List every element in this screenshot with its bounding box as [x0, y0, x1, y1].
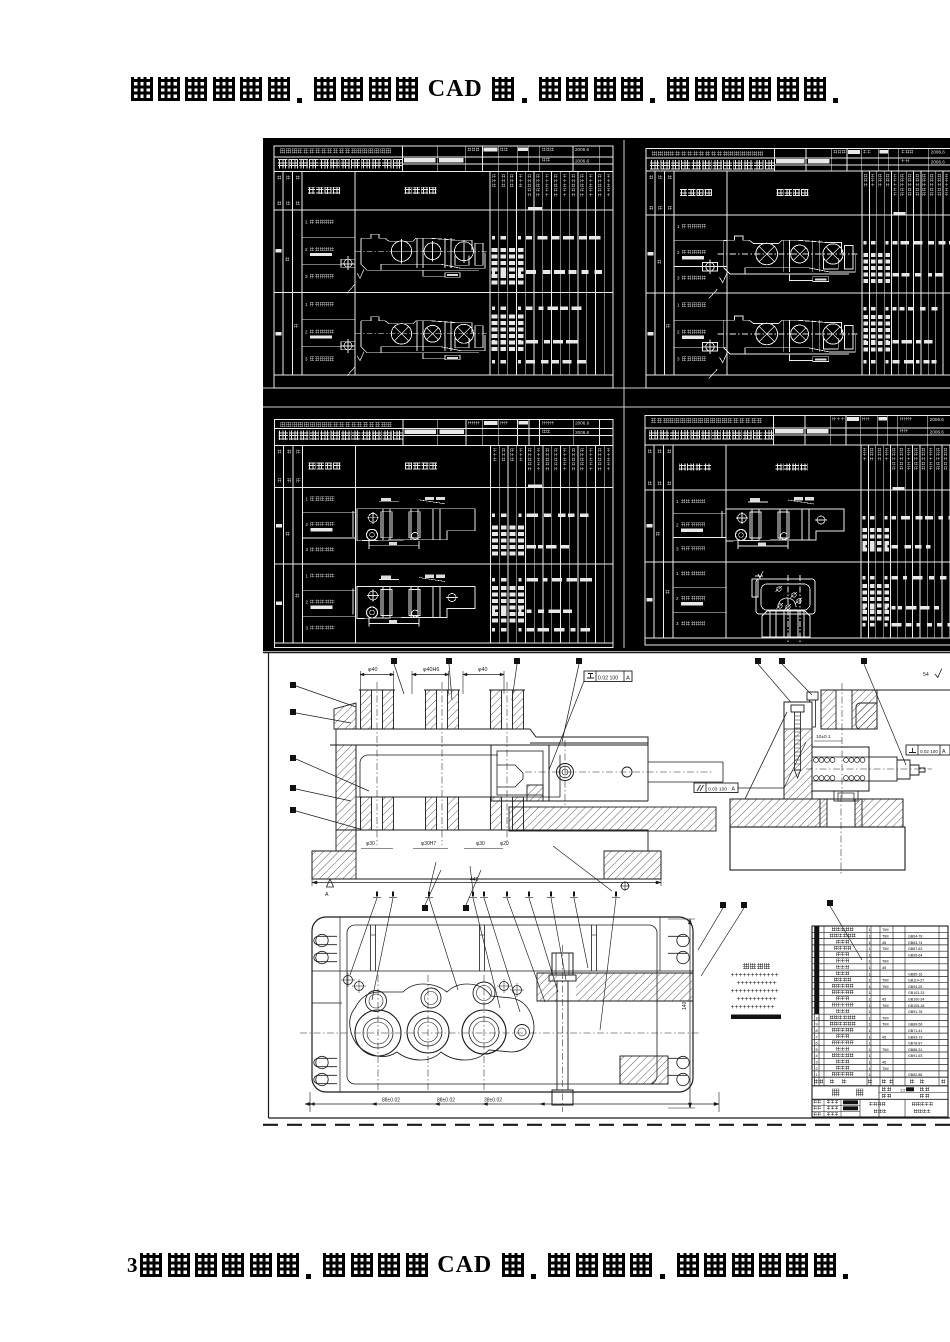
svg-text:TIM: TIM: [882, 947, 889, 951]
svg-text:140: 140: [682, 1001, 688, 1010]
svg-text:TIM: TIM: [882, 960, 889, 964]
front view: balloons top row: [391, 658, 397, 664]
BOM parts list table: [812, 926, 948, 1117]
svg-text:GB64-78: GB64-78: [908, 935, 922, 939]
svg-text:GB82-86: GB82-86: [908, 1073, 922, 1077]
card BL title block: [275, 428, 614, 430]
card BR 工序内容 entries: [673, 513, 726, 515]
svg-text:GB91-63: GB91-63: [908, 1054, 922, 1058]
card TR column headers: [654, 171, 656, 375]
card TL title 机械加工工艺过程综合卡片: [278, 159, 287, 168]
card BL 工序内容 entries: [303, 512, 356, 514]
hatched strip lower right: [620, 1056, 668, 1084]
card BL header filled fields: [405, 430, 437, 434]
side view top block: [821, 690, 836, 729]
sheet edge dashed line: [263, 1124, 950, 1126]
svg-text:4: 4: [816, 1054, 818, 1058]
card TR header grid: [805, 149, 807, 172]
svg-text:7: 7: [816, 1035, 818, 1039]
svg-text:TIM: TIM: [882, 1023, 889, 1027]
card BR title 机械加工工艺过程综合卡片: [649, 430, 658, 439]
svg-text:TIM: TIM: [882, 1016, 889, 1020]
card BL 工序内容: [309, 463, 316, 470]
process card BR outer border: [645, 416, 950, 645]
tech req underline bar: [731, 1015, 781, 1020]
top bolt: [807, 692, 818, 700]
svg-text:φ40: φ40: [368, 667, 378, 673]
svg-text:3: 3: [816, 1061, 818, 1065]
drawing sheet frame top border: [263, 651, 950, 653]
card TR header filled fields: [776, 159, 804, 163]
svg-text:45: 45: [882, 966, 886, 970]
centerlines front view: [376, 682, 378, 845]
svg-text:9: 9: [816, 1023, 818, 1027]
card BR parameter entries: [863, 516, 866, 520]
svg-text:TIM: TIM: [882, 985, 889, 989]
base hatched band right: [509, 807, 716, 831]
svg-text:GB103-33: GB103-33: [908, 991, 924, 995]
card TL 工序简图 drawing row1: [341, 234, 487, 293]
top guide bushings: [361, 690, 372, 729]
card BL tool columns entries: [492, 526, 498, 530]
spindle body: [812, 747, 869, 791]
small locator holes: [344, 976, 353, 985]
svg-text:A: A: [942, 749, 946, 755]
svg-text:2006.6: 2006.6: [930, 429, 944, 434]
BOM standard-part black bar: [815, 926, 820, 1014]
card BL header grid: [437, 420, 439, 446]
svg-text:TIM: TIM: [882, 979, 889, 983]
svg-text:φ30: φ30: [366, 841, 375, 847]
svg-text:GB78-87: GB78-87: [908, 1042, 922, 1046]
card BL column headers: [283, 446, 285, 644]
svg-text:45: 45: [882, 1035, 886, 1039]
studs in top band: [370, 925, 372, 971]
dimension lines above bushings: [360, 674, 394, 676]
card TR 工序简图: [777, 189, 784, 196]
plan view centerlines: [300, 1032, 700, 1034]
card TR 工序简图 drawing row2: [703, 316, 858, 379]
svg-text:2006.6: 2006.6: [575, 147, 589, 152]
tolerance frame right: [906, 745, 950, 755]
svg-text:2006.6: 2006.6: [931, 150, 945, 155]
tech req title: [743, 963, 749, 969]
card TL 工序内容 entries: [302, 236, 355, 238]
svg-text:8: 8: [816, 1029, 818, 1033]
card TL 工序简图: [405, 187, 412, 194]
card TL header grid: [436, 146, 438, 172]
card BR header filled fields: [775, 429, 803, 433]
base block: [336, 829, 648, 831]
quadrant divider horizontal lower: [263, 406, 950, 408]
svg-text:0.02 100: 0.02 100: [920, 749, 938, 754]
side view base lower: [730, 827, 905, 870]
card TL title block: [274, 156, 613, 158]
leaders into plan view: [350, 898, 377, 975]
clamp stud section: [552, 953, 573, 975]
process card TL outer border: [274, 146, 613, 388]
card BR tool columns entries: [863, 528, 867, 532]
svg-text:GB71-41: GB71-41: [908, 1029, 922, 1033]
svg-text:φ30: φ30: [476, 841, 485, 847]
card TR 工序内容 entries: [674, 240, 727, 242]
svg-text:TIM: TIM: [882, 1004, 889, 1008]
svg-text:2006.6: 2006.6: [930, 417, 944, 422]
svg-text:45: 45: [882, 998, 886, 1002]
card BR school name: [651, 418, 656, 423]
black CAD panel background: [263, 138, 950, 651]
tolerance frame parallelism (left): [694, 783, 738, 793]
svg-text:φ30H7: φ30H7: [421, 841, 436, 847]
svg-text:GB93-73: GB93-73: [908, 1035, 922, 1039]
bottom caption line: [127, 1253, 857, 1283]
plan view outer plate: [312, 917, 693, 1092]
svg-text:GB85-16: GB85-16: [908, 972, 922, 976]
svg-text:GB114-27: GB114-27: [908, 979, 924, 983]
card BR title block: [645, 427, 950, 429]
card BL row divider: [275, 563, 614, 565]
BOM title cell 估核: [812, 1085, 948, 1087]
BOM header row: [812, 1076, 948, 1078]
svg-text:2006.6: 2006.6: [575, 421, 589, 426]
svg-text:GB87-63: GB87-63: [908, 947, 922, 951]
card TL 工序内容: [308, 187, 315, 194]
arm extension: [648, 762, 723, 782]
svg-text:5: 5: [816, 1048, 818, 1052]
small circle right: [622, 767, 632, 777]
card TR 工序内容: [680, 189, 687, 196]
process card BL outer border: [275, 420, 614, 648]
svg-text:88±0.02: 88±0.02: [382, 1098, 400, 1104]
svg-text:φ20: φ20: [500, 841, 509, 847]
svg-text:2006.6: 2006.6: [575, 430, 589, 435]
card TL header filled fields: [404, 158, 436, 162]
clamp screw: [791, 705, 804, 712]
svg-text:2006.6: 2006.6: [931, 159, 945, 164]
card BL 工序简图 drawing row2: [353, 575, 475, 627]
svg-text:1: 1: [816, 1073, 818, 1077]
card TR title block: [646, 157, 950, 159]
svg-text:GB86-31: GB86-31: [908, 1048, 922, 1052]
card BR header grid: [804, 416, 806, 445]
svg-text:A: A: [325, 892, 329, 898]
card BR 工序简图 drawing row1: [722, 497, 844, 549]
svg-text:0.03 100: 0.03 100: [708, 787, 727, 793]
card BL 工序简图: [405, 463, 412, 470]
card BR 工序内容: [679, 464, 686, 471]
card BR 工序简图: [776, 464, 783, 471]
svg-text:TIM: TIM: [882, 935, 889, 939]
svg-text:φ40H6: φ40H6: [423, 667, 439, 673]
svg-text:10±0.1: 10±0.1: [816, 734, 831, 740]
main bosses: [355, 1010, 401, 1056]
svg-text:GB89-56: GB89-56: [908, 1023, 922, 1027]
card TL school name: [280, 149, 285, 154]
svg-text:GB94-25: GB94-25: [908, 985, 922, 989]
card BR row divider: [645, 561, 950, 563]
balloons above plan view: [422, 905, 428, 911]
svg-text:2: 2: [816, 1067, 818, 1071]
card TR parameter entries: [864, 241, 867, 245]
svg-text:45: 45: [882, 1061, 886, 1065]
card TR 工序简图 drawing row1: [703, 236, 858, 299]
jig body deck: [336, 728, 530, 730]
svg-text:2006.6: 2006.6: [575, 158, 589, 163]
vertical dim 140: [689, 919, 691, 1108]
process card TR outer border: [646, 149, 950, 389]
jig body left wall (hatched): [334, 703, 356, 729]
upper medium holes: [366, 991, 387, 1012]
pocket outline around bosses: [350, 984, 534, 1060]
front view: left balloons: [290, 682, 296, 688]
card BR 工序简图 drawing row2: [752, 571, 815, 642]
svg-text:45: 45: [882, 941, 886, 945]
springs: [814, 758, 819, 763]
svg-text:10: 10: [816, 1016, 820, 1020]
svg-text:6: 6: [816, 1042, 818, 1046]
card TL 工序简图 drawing row2: [341, 317, 487, 376]
svg-text:88±0.02: 88±0.02: [437, 1098, 455, 1104]
svg-text:TIM: TIM: [882, 1048, 889, 1052]
card TL tool columns entries: [492, 248, 498, 252]
plan view inner plate edge: [312, 917, 693, 1092]
svg-text:GB91-78: GB91-78: [908, 1010, 922, 1014]
side view base upper (hatched): [730, 799, 903, 827]
front view: leader lines: [296, 686, 356, 707]
card TL row divider: [274, 292, 613, 294]
tolerance leader: [549, 681, 584, 770]
BOM bottom block: [812, 1098, 948, 1100]
overall width dim: [312, 882, 661, 884]
sheet frame bottom border: [269, 1117, 950, 1119]
card BR column headers: [653, 445, 655, 638]
svg-text:0.02 100: 0.02 100: [598, 676, 618, 682]
svg-text:φ40: φ40: [478, 667, 488, 673]
bolt head circle: [557, 764, 574, 781]
svg-text:TIM: TIM: [882, 1067, 889, 1071]
arm outline: [530, 743, 648, 801]
card TR row divider: [646, 292, 950, 294]
spindle shaft: [869, 757, 897, 781]
section plane line: [877, 689, 950, 691]
svg-text:GB105-18: GB105-18: [908, 1004, 924, 1008]
sheet frame left border: [268, 652, 270, 1118]
bushing extension lines: [360, 671, 362, 694]
cavity: [360, 755, 560, 797]
balloon number band: [376, 892, 378, 897]
card TL parameter entries: [492, 236, 495, 240]
svg-text:GB100-34: GB100-34: [908, 998, 924, 1002]
svg-text:1:2: 1:2: [900, 1088, 905, 1092]
tolerance frame perpendicularity (top): [584, 671, 632, 682]
card TR school name: [652, 151, 657, 156]
card BL school name: [281, 422, 286, 427]
corner ear slots: [314, 936, 337, 944]
left bracket: [784, 702, 812, 799]
card BL parameter entries: [492, 514, 495, 518]
quadrant divider vertical: [623, 140, 625, 648]
card BL title 机械加工工艺过程综合卡片: [279, 431, 288, 440]
side view balloons: [755, 658, 761, 664]
card TR tool columns entries: [864, 253, 868, 257]
right bracket with bolt boss: [491, 745, 549, 801]
svg-text:A: A: [732, 787, 736, 793]
bracket gusset edge: [745, 712, 787, 799]
lower guide bushings: [361, 797, 372, 830]
BOM row texts: [832, 927, 836, 931]
datum flag A: [327, 879, 334, 887]
datum target right foot: [621, 882, 629, 890]
quadrant divider horizontal upper: [263, 387, 950, 389]
card TR title 机械加工工艺过程综合卡片: [650, 160, 659, 169]
svg-text:54: 54: [923, 672, 929, 678]
block under spindle: [834, 791, 858, 801]
svg-text:GB63-74: GB63-74: [908, 941, 922, 945]
svg-text:TIM: TIM: [882, 928, 889, 932]
hatched clamp plate: [537, 973, 693, 1001]
top caption line: [128, 77, 848, 107]
svg-text:A: A: [626, 676, 630, 682]
body left edge: [335, 729, 337, 830]
bracket lower block: [527, 785, 543, 801]
svg-text:GB95-64: GB95-64: [908, 953, 922, 957]
card BL 工序简图 drawing row1: [353, 497, 475, 549]
card TL column headers: [282, 172, 284, 376]
